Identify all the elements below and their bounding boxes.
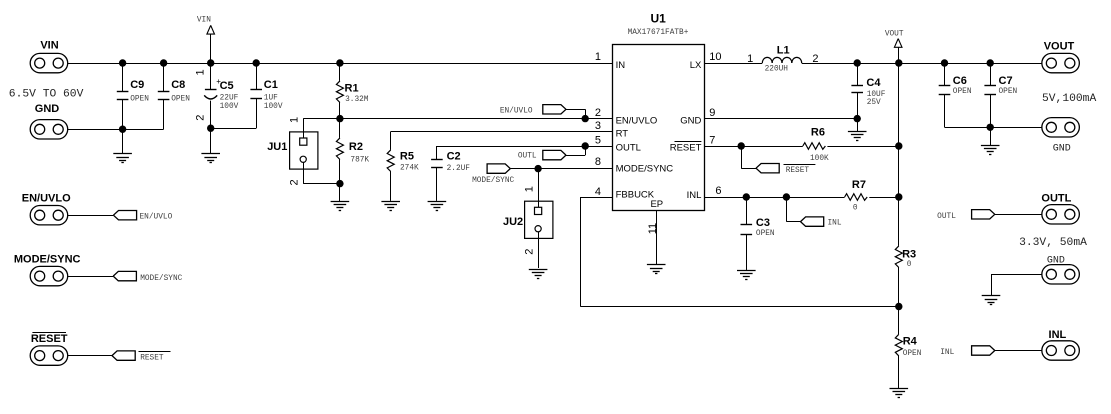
- svg-text:RESET: RESET: [786, 167, 810, 175]
- svg-text:C2: C2: [447, 150, 461, 162]
- svg-text:R2: R2: [349, 141, 363, 153]
- svg-text:7: 7: [709, 134, 715, 146]
- net flag EN/UVLO (pin 2): [500, 105, 589, 123]
- junction VOUT-C7: [987, 59, 994, 66]
- svg-text:4: 4: [595, 186, 601, 198]
- power flag VOUT: [885, 30, 904, 63]
- junction FB node: [895, 303, 902, 310]
- junction C3: [743, 193, 750, 200]
- net flag MODE/SYNC (pin 8): [472, 164, 612, 185]
- svg-text:C3: C3: [756, 217, 770, 229]
- capacitor C4 10UF: [851, 63, 885, 119]
- wire FBBUCK feedback: [580, 197, 899, 307]
- svg-text:2.2UF: 2.2UF: [447, 165, 471, 173]
- svg-text:2: 2: [289, 179, 301, 185]
- resistor R4 OPEN: [895, 307, 921, 389]
- ground (JU2): [529, 270, 548, 279]
- svg-text:INL: INL: [687, 190, 702, 201]
- capacitor C1 1UF: [250, 63, 282, 128]
- svg-text:R5: R5: [400, 150, 414, 162]
- resistor R3 0: [895, 246, 916, 269]
- junction R7-rail: [895, 193, 902, 200]
- text input range 6.5V TO 60V: [9, 88, 84, 100]
- svg-text:11: 11: [647, 223, 659, 234]
- svg-text:GND: GND: [680, 116, 701, 127]
- junction MODE/SYNC-JU2: [534, 165, 541, 172]
- junction C5-GND: [207, 125, 214, 132]
- capacitor C2 2.2UF: [431, 146, 470, 201]
- capacitor C6: [939, 63, 972, 127]
- junction RESET flag: [738, 142, 745, 149]
- svg-text:OPEN: OPEN: [171, 95, 190, 103]
- svg-text:FBBUCK: FBBUCK: [616, 190, 655, 201]
- svg-text:OUTL: OUTL: [1041, 193, 1071, 205]
- net flag EN/UVLO (left): [113, 211, 172, 222]
- svg-text:OUTL: OUTL: [616, 142, 641, 153]
- resistor R6 100K: [803, 127, 829, 163]
- connector GND (input): [30, 103, 67, 139]
- svg-text:VIN: VIN: [40, 40, 58, 52]
- junction INL flag: [783, 193, 790, 200]
- op-amp U1 MAX17671FATB+: [595, 11, 722, 210]
- svg-text:EN/UVLO: EN/UVLO: [616, 116, 658, 127]
- svg-text:EN/UVLO: EN/UVLO: [22, 193, 71, 205]
- junction R6-rail: [895, 142, 902, 149]
- junction LX-C4: [854, 59, 861, 66]
- svg-text:R3: R3: [902, 248, 916, 260]
- svg-text:OPEN: OPEN: [999, 88, 1018, 96]
- capacitor C8: [158, 63, 190, 129]
- pin 11 EP wire: [647, 211, 659, 265]
- svg-text:8: 8: [595, 156, 601, 168]
- svg-text:R4: R4: [903, 336, 918, 348]
- svg-text:3.32M: 3.32M: [345, 96, 369, 104]
- svg-text:220UH: 220UH: [765, 66, 789, 74]
- wire L1 to VOUT connector: [802, 63, 1042, 65]
- svg-text:22UF: 22UF: [220, 95, 239, 103]
- net flag RESET: [741, 146, 815, 175]
- svg-text:GND: GND: [35, 103, 60, 115]
- connector INL: [1042, 329, 1080, 360]
- svg-text:1UF: 1UF: [264, 95, 278, 103]
- svg-text:INL: INL: [828, 220, 842, 228]
- svg-text:100K: 100K: [810, 155, 829, 163]
- net flag OUTL (connector): [937, 210, 1042, 221]
- junction VIN-C8: [160, 59, 167, 66]
- connector EN/UVLO: [22, 193, 71, 225]
- junction EN/UVLO node: [336, 115, 343, 122]
- ground (C4): [848, 119, 867, 141]
- junction VIN-C1: [253, 59, 260, 66]
- wire INL line (pin 6): [705, 197, 899, 199]
- connector VIN: [30, 40, 67, 73]
- jumper JU2: [503, 169, 553, 268]
- svg-text:3.3V, 50mA: 3.3V, 50mA: [1019, 237, 1087, 249]
- junction VIN-C9: [119, 59, 126, 66]
- svg-text:L1: L1: [777, 45, 790, 57]
- svg-text:274K: 274K: [400, 165, 419, 173]
- svg-text:5: 5: [595, 134, 601, 146]
- text output 5V,100mA: [1042, 93, 1096, 105]
- power flag VIN: [197, 16, 215, 63]
- svg-text:C8: C8: [171, 79, 185, 91]
- connector OUTL: [1041, 193, 1079, 224]
- svg-text:OPEN: OPEN: [756, 230, 775, 238]
- svg-text:GND: GND: [1053, 144, 1071, 155]
- jumper JU1: [267, 117, 340, 186]
- wire RT line: [391, 131, 613, 133]
- svg-text:MODE/SYNC: MODE/SYNC: [14, 253, 81, 265]
- wire RESET conn to flag: [68, 355, 112, 357]
- ground (input GND): [113, 129, 132, 162]
- svg-text:3: 3: [595, 120, 601, 132]
- svg-text:9: 9: [709, 107, 715, 119]
- ground (R2/JU1): [331, 184, 350, 211]
- svg-text:OPEN: OPEN: [953, 88, 972, 96]
- svg-text:1: 1: [747, 53, 753, 65]
- junction VIN-C5: [207, 59, 214, 66]
- resistor R1 3.32M: [336, 63, 368, 119]
- svg-text:OPEN: OPEN: [903, 350, 922, 358]
- net flag RESET (left): [112, 351, 171, 363]
- svg-text:RESET: RESET: [31, 333, 68, 345]
- ground (R4): [890, 389, 909, 398]
- svg-text:0: 0: [907, 261, 912, 269]
- wire OUTL line: [437, 146, 613, 148]
- net flag INL (connector): [940, 346, 1042, 357]
- resistor R7 0: [845, 179, 868, 213]
- svg-text:1: 1: [289, 117, 301, 123]
- connector VOUT: [1042, 40, 1080, 72]
- ground (C2): [428, 202, 447, 211]
- svg-text:U1: U1: [651, 11, 667, 25]
- svg-text:R7: R7: [852, 179, 866, 191]
- svg-text:10UF: 10UF: [867, 91, 886, 99]
- svg-text:C9: C9: [130, 79, 144, 91]
- svg-text:0: 0: [853, 205, 858, 213]
- svg-text:C5: C5: [220, 80, 234, 92]
- svg-text:JU2: JU2: [503, 216, 523, 228]
- svg-text:R6: R6: [811, 127, 825, 139]
- svg-text:EN/UVLO: EN/UVLO: [500, 107, 533, 115]
- ground (EP): [647, 265, 666, 274]
- svg-text:OUTL: OUTL: [518, 153, 537, 161]
- svg-text:2: 2: [523, 249, 535, 255]
- net flag MODE/SYNC (left): [113, 271, 182, 283]
- wire output gnd rail: [945, 127, 1043, 129]
- wire EN/UVLO conn to flag: [68, 215, 114, 217]
- svg-text:JU1: JU1: [267, 141, 287, 153]
- svg-text:2: 2: [194, 115, 206, 121]
- junction GND-C9: [119, 126, 126, 133]
- svg-text:MODE/SYNC: MODE/SYNC: [616, 163, 674, 174]
- svg-text:OPEN: OPEN: [130, 95, 149, 103]
- svg-text:2: 2: [595, 107, 601, 119]
- svg-text:C4: C4: [866, 77, 881, 89]
- wire VOUT rail: [898, 63, 900, 307]
- wire VIN to IN rail: [68, 63, 613, 65]
- ground (C6/C7): [981, 127, 1000, 154]
- svg-text:RT: RT: [616, 129, 629, 140]
- connector MODE/SYNC: [14, 253, 81, 285]
- svg-text:C6: C6: [953, 75, 967, 87]
- svg-text:C7: C7: [999, 75, 1013, 87]
- svg-text:GND: GND: [1047, 256, 1065, 267]
- svg-text:1: 1: [595, 51, 601, 63]
- svg-text:100V: 100V: [264, 103, 283, 111]
- ground (C3): [737, 271, 756, 280]
- wire EN/UVLO line: [303, 118, 612, 120]
- capacitor C5 22UF: [194, 63, 238, 128]
- capacitor C3: [741, 197, 775, 271]
- ground (C5): [201, 128, 220, 162]
- resistor R2 787K: [336, 119, 369, 184]
- svg-text:VOUT: VOUT: [1044, 40, 1075, 52]
- ground (output GND): [982, 296, 1001, 305]
- svg-text:R1: R1: [345, 82, 359, 94]
- svg-text:INL: INL: [1049, 329, 1067, 341]
- net flag INL (pin 6): [786, 197, 841, 228]
- svg-text:VIN: VIN: [197, 16, 211, 24]
- junction VIN-R1: [336, 59, 343, 66]
- svg-text:IN: IN: [616, 60, 626, 71]
- junction VOUT arrow: [895, 59, 902, 66]
- junction VOUT-C6: [941, 59, 948, 66]
- ground (R5): [381, 202, 400, 211]
- svg-text:6.5V TO 60V: 6.5V TO 60V: [9, 88, 84, 100]
- svg-text:INL: INL: [940, 349, 954, 357]
- svg-text:VOUT: VOUT: [885, 30, 904, 38]
- junction C4-GND9: [854, 115, 861, 122]
- wire GND conn to ground: [991, 274, 1042, 296]
- svg-text:MODE/SYNC: MODE/SYNC: [472, 177, 514, 185]
- svg-text:RESET: RESET: [140, 354, 164, 362]
- svg-text:10: 10: [709, 51, 721, 63]
- wire MODE/SYNC conn to flag: [68, 276, 114, 278]
- svg-text:RESET: RESET: [670, 142, 702, 153]
- wire GND pin9: [705, 118, 858, 120]
- svg-text:6: 6: [715, 185, 721, 197]
- svg-text:100V: 100V: [220, 103, 239, 111]
- capacitor C9: [117, 63, 149, 129]
- svg-text:EN/UVLO: EN/UVLO: [140, 213, 173, 221]
- svg-text:LX: LX: [690, 60, 702, 71]
- svg-text:5V,100mA: 5V,100mA: [1042, 93, 1096, 105]
- capacitor C7: [984, 63, 1017, 127]
- svg-text:MAX17671FATB+: MAX17671FATB+: [628, 29, 689, 37]
- inductor L1 220UH: [747, 45, 818, 74]
- connector GND (output top): [1042, 118, 1080, 155]
- junction R2-JU1 gnd: [336, 180, 343, 187]
- resistor R5 274K: [387, 132, 419, 201]
- junction C7-gnd: [987, 124, 994, 131]
- svg-text:MODE/SYNC: MODE/SYNC: [140, 275, 182, 283]
- connector GND (output bottom): [1042, 256, 1080, 284]
- svg-text:25V: 25V: [867, 99, 881, 107]
- svg-text:OUTL: OUTL: [937, 213, 956, 221]
- svg-text:C1: C1: [264, 79, 278, 91]
- svg-text:1: 1: [523, 186, 535, 192]
- wire RESET line (pin 7): [705, 146, 899, 148]
- net flag OUTL (pin 5): [518, 142, 589, 160]
- connector RESET (input): [30, 333, 68, 366]
- wire C5 to C1 gnd: [211, 128, 257, 130]
- svg-text:EP: EP: [650, 199, 663, 210]
- wire GND rail: [68, 129, 164, 131]
- svg-text:1: 1: [194, 69, 206, 75]
- wire LX to L1: [705, 63, 763, 65]
- text output 3.3V, 50mA: [1019, 237, 1087, 249]
- svg-text:787K: 787K: [350, 156, 369, 164]
